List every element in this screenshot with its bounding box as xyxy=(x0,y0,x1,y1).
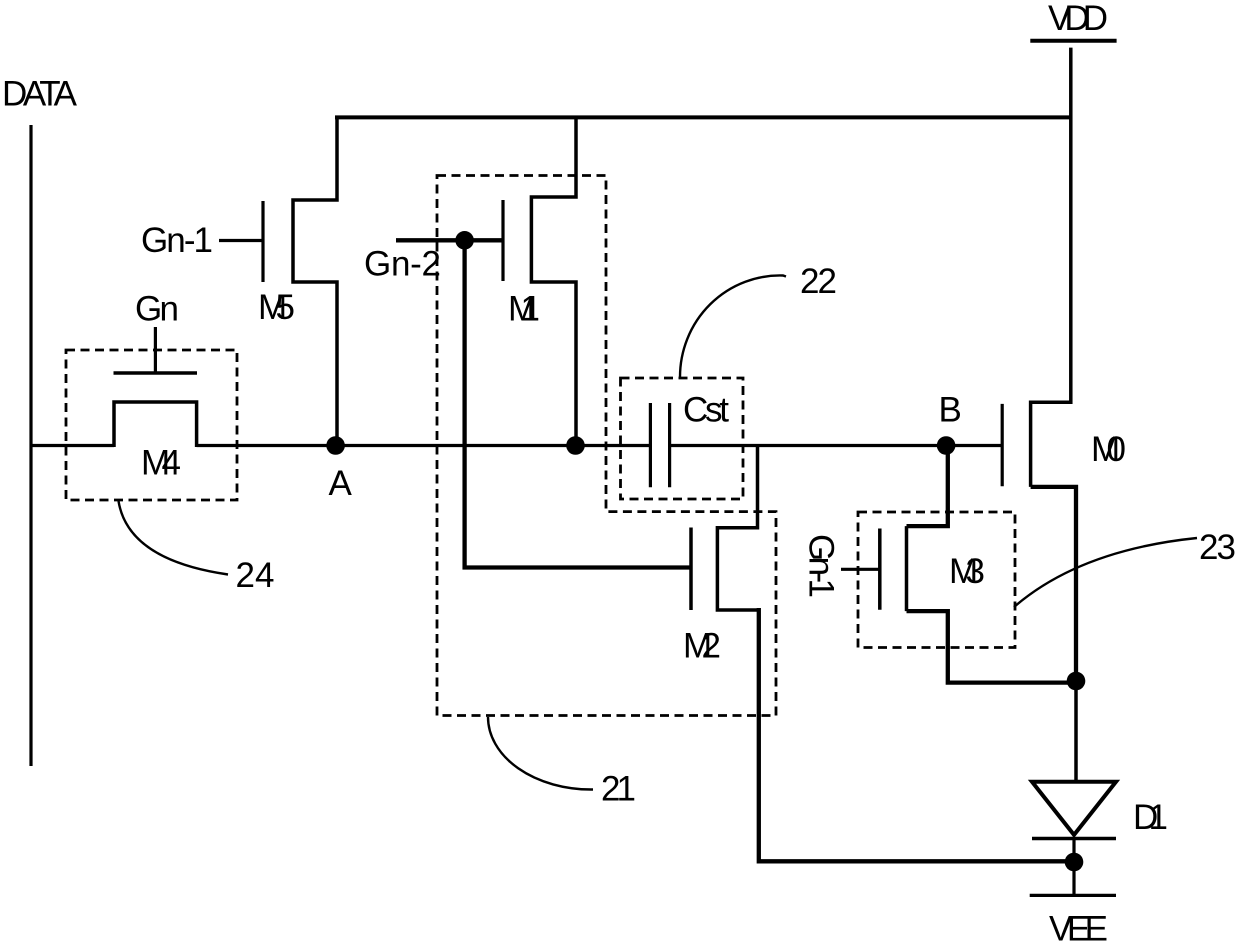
svg-text:22: 22 xyxy=(800,262,837,301)
svg-text:VDD: VDD xyxy=(1048,0,1108,38)
svg-text:Gn: Gn xyxy=(135,290,179,329)
svg-text:DATA: DATA xyxy=(2,75,78,114)
svg-text:M3: M3 xyxy=(949,552,985,591)
svg-text:B: B xyxy=(939,391,962,430)
svg-text:Gn-1: Gn-1 xyxy=(141,221,213,260)
svg-text:M2: M2 xyxy=(683,627,721,666)
svg-text:M1: M1 xyxy=(508,290,540,329)
svg-text:M4: M4 xyxy=(141,444,181,483)
svg-text:21: 21 xyxy=(601,770,636,809)
svg-text:Cst: Cst xyxy=(683,391,729,430)
svg-text:D1: D1 xyxy=(1133,798,1168,837)
svg-text:M5: M5 xyxy=(258,288,295,327)
svg-text:Gn-2: Gn-2 xyxy=(364,245,441,284)
svg-text:A: A xyxy=(329,464,353,503)
svg-text:VEE: VEE xyxy=(1049,910,1108,948)
svg-text:M0: M0 xyxy=(1091,430,1126,469)
svg-text:23: 23 xyxy=(1199,528,1236,567)
svg-text:Gn-1: Gn-1 xyxy=(802,534,841,598)
svg-text:24: 24 xyxy=(236,556,275,595)
